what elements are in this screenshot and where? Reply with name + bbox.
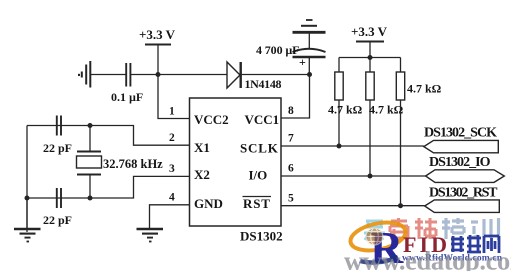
wire left rail (crystal column) bbox=[26, 126, 28, 233]
svg-text:SCLK: SCLK bbox=[240, 141, 279, 156]
resistor R2 4.7k bbox=[366, 58, 404, 177]
net flag DS1302_SCK bbox=[424, 126, 499, 153]
svg-text:I/O: I/O bbox=[249, 168, 268, 183]
svg-text:DS1302_RST: DS1302_RST bbox=[429, 186, 498, 201]
svg-text:+3.3 V: +3.3 V bbox=[139, 27, 176, 42]
wire node A down to pin 1 bbox=[158, 75, 190, 119]
watermark cyan CJK char bbox=[364, 221, 385, 240]
svg-text:4.7 kΩ: 4.7 kΩ bbox=[369, 103, 404, 117]
capacitor C1 0.1uF bbox=[111, 63, 143, 104]
svg-text:1: 1 bbox=[169, 106, 175, 118]
diode D1 1N4148 bbox=[227, 62, 282, 91]
svg-text:GND: GND bbox=[194, 196, 223, 211]
watermark CJK blue chars bbox=[451, 235, 499, 253]
capacitor C3 22pF (top) bbox=[43, 116, 72, 156]
net flag DS1302_RST bbox=[425, 186, 500, 213]
svg-text:+3.3 V: +3.3 V bbox=[351, 24, 388, 39]
wire pin 4 to ground bbox=[150, 205, 190, 229]
svg-text:VCC1: VCC1 bbox=[245, 112, 280, 127]
capacitor C2 4700uF electrolytic bbox=[256, 43, 326, 75]
svg-text:8: 8 bbox=[288, 105, 294, 117]
svg-text:3: 3 bbox=[169, 163, 175, 175]
wire node B down to pin 8 bbox=[281, 75, 310, 119]
watermark navy swoosh under R bbox=[359, 255, 399, 265]
power +3.3V (left) bbox=[139, 27, 176, 75]
svg-text:4 700 µF: 4 700 µF bbox=[256, 43, 300, 57]
svg-text:+: + bbox=[299, 55, 306, 69]
svg-text:5: 5 bbox=[288, 193, 294, 205]
svg-text:X1: X1 bbox=[194, 140, 210, 155]
wire resistor rail bbox=[339, 55, 401, 60]
wire crystal top row to pin 2 bbox=[27, 123, 190, 145]
watermark lightblue CJK chars bbox=[442, 218, 499, 240]
IC U1 DS1302 bbox=[190, 98, 283, 244]
crystal Y1 32.768 kHz bbox=[77, 126, 164, 199]
svg-text:DS1302_IO: DS1302_IO bbox=[429, 155, 491, 170]
svg-text:DS1302: DS1302 bbox=[240, 229, 283, 244]
svg-text:X2: X2 bbox=[194, 167, 210, 182]
wire pin 6 I/O to flag bbox=[281, 174, 426, 179]
svg-text:www.edatop.com: www.edatop.com bbox=[344, 246, 511, 271]
watermark red CJK chars bbox=[390, 218, 437, 239]
svg-text:32.768 kHz: 32.768 kHz bbox=[103, 157, 163, 171]
watermark logo (bottom right) bbox=[344, 218, 511, 271]
svg-text:DS1302_SCK: DS1302_SCK bbox=[424, 126, 497, 141]
ground (far left, sideways) bbox=[79, 61, 90, 88]
ground (under pin 4) bbox=[137, 229, 164, 242]
svg-text:RST: RST bbox=[243, 196, 271, 211]
resistor R3 4.7k bbox=[396, 58, 441, 206]
svg-text:4.7 kΩ: 4.7 kΩ bbox=[407, 82, 442, 96]
svg-text:2: 2 bbox=[169, 132, 175, 144]
power +3.3V (right) bbox=[351, 24, 388, 58]
wire diode to node B bbox=[241, 72, 312, 77]
svg-text:7: 7 bbox=[288, 133, 294, 145]
svg-text:22 pF: 22 pF bbox=[43, 213, 72, 227]
wire C1 to diode, node A bbox=[131, 72, 228, 77]
resistor R1 4.7k bbox=[328, 58, 363, 147]
ground (bottom left) bbox=[14, 198, 41, 242]
wire pin 7 SCLK to flag bbox=[281, 144, 424, 149]
svg-text:6: 6 bbox=[288, 163, 294, 175]
svg-text:22 pF: 22 pF bbox=[43, 141, 72, 155]
svg-text:0.1 µF: 0.1 µF bbox=[111, 90, 143, 104]
svg-text:VCC2: VCC2 bbox=[194, 112, 229, 127]
svg-text:4: 4 bbox=[169, 192, 175, 204]
ground (top, inverted) bbox=[293, 20, 326, 48]
svg-text:1N4148: 1N4148 bbox=[245, 77, 282, 91]
wire ground to C1 bbox=[91, 74, 126, 76]
watermark ellipse ring bbox=[348, 218, 408, 255]
wire pin 5 RST to flag bbox=[281, 203, 425, 208]
capacitor C4 22pF (bottom) bbox=[43, 188, 72, 227]
watermark globe bbox=[366, 228, 383, 245]
wire crystal bottom row to pin 3 bbox=[25, 176, 190, 200]
net flag DS1302_IO bbox=[426, 155, 505, 182]
svg-text:4.7 kΩ: 4.7 kΩ bbox=[328, 103, 363, 117]
